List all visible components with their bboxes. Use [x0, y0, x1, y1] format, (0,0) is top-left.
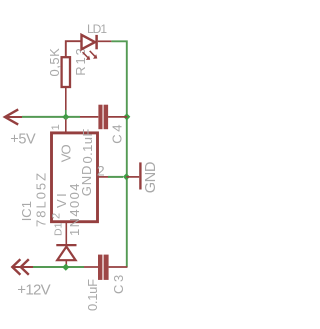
- svg-text:C3: C3: [111, 272, 126, 294]
- LED LD1 cathode bar: [95, 35, 98, 49]
- svg-text:D1: D1: [53, 222, 65, 236]
- GND symbol bar: [139, 162, 141, 189]
- svg-text:2: 2: [51, 213, 63, 219]
- IC1 pin 1 wire: [65, 117, 67, 120]
- svg-text:0,5K: 0,5K: [47, 48, 62, 77]
- svg-text:IC1: IC1: [19, 201, 34, 221]
- resistor R13: [62, 57, 70, 87]
- LED LD1 arrow 1: [83, 52, 88, 57]
- capacitor C4 right lead: [108, 116, 127, 118]
- svg-text:1N4004: 1N4004: [67, 182, 82, 236]
- svg-text:VO: VO: [58, 145, 73, 163]
- svg-text:0.1uF: 0.1uF: [85, 279, 100, 311]
- junction C4: [123, 113, 130, 120]
- svg-text:LD1: LD1: [87, 22, 107, 36]
- svg-text:C4: C4: [109, 122, 124, 144]
- svg-text:78L05Z: 78L05Z: [33, 171, 48, 227]
- LED LD1 triangle: [82, 35, 96, 49]
- capacitor C3 plates: [98, 255, 102, 280]
- LED LD1 cathode pin: [98, 40, 112, 42]
- diode D1 triangle: [57, 247, 75, 261]
- capacitor C3 right lead: [109, 266, 128, 268]
- diode D1 cathode bar: [56, 244, 76, 246]
- LED LD1 arrow 2: [90, 51, 95, 56]
- +5V supply arrow: [5, 109, 18, 124]
- IC1 bottom pin wire: [65, 222, 67, 245]
- wire +12V rail: [33, 266, 84, 268]
- svg-text:+5V: +5V: [10, 131, 36, 147]
- svg-text:2: 2: [97, 163, 105, 179]
- IC1 pin 2 (right): [98, 176, 109, 178]
- junction +5V/R13/IC1: [62, 113, 69, 120]
- IC1 body 78L05Z: [52, 133, 98, 222]
- wire R13 top to LED anode: [66, 41, 82, 56]
- svg-text:GND: GND: [143, 162, 159, 194]
- wire +5V rail: [22, 116, 80, 118]
- GND symbol stub: [126, 176, 139, 178]
- diode D1 anode pin: [65, 260, 67, 267]
- +12V supply arrow: [12, 259, 20, 274]
- capacitor C3 left lead: [84, 266, 98, 268]
- junction GND net: [123, 173, 130, 180]
- capacitor C4 left lead: [80, 116, 98, 118]
- wire resistor bottom pin: [65, 87, 67, 111]
- capacitor C4 plates: [98, 105, 102, 130]
- junction +12V/D1: [62, 264, 69, 271]
- svg-text:1: 1: [50, 124, 62, 130]
- wire LED to right vertical net: [111, 41, 126, 267]
- svg-text:+12V: +12V: [17, 282, 50, 299]
- svg-text:0.1uF: 0.1uF: [80, 128, 95, 163]
